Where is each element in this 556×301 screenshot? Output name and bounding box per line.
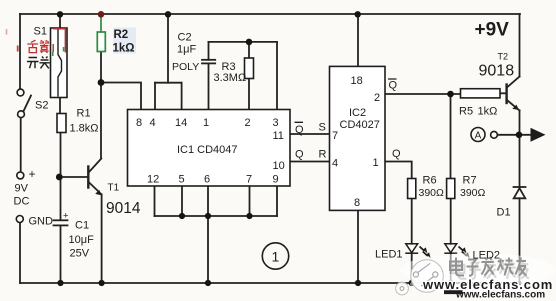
svg-text:1μF: 1μF: [177, 44, 196, 56]
svg-text:R7: R7: [463, 175, 477, 187]
svg-text:1: 1: [272, 249, 280, 265]
svg-text:LED2: LED2: [473, 250, 501, 262]
svg-text:10: 10: [273, 160, 285, 172]
svg-text:390Ω: 390Ω: [460, 187, 486, 199]
svg-text:5: 5: [179, 174, 185, 186]
svg-text:9014: 9014: [106, 200, 141, 217]
svg-text:7: 7: [246, 174, 252, 186]
svg-text:1kΩ: 1kΩ: [478, 106, 498, 118]
svg-text:2: 2: [374, 92, 380, 104]
svg-text:T2: T2: [498, 52, 509, 62]
svg-text:3: 3: [273, 117, 279, 129]
svg-text:1: 1: [373, 157, 379, 169]
svg-text:18: 18: [351, 75, 363, 87]
svg-text:9018: 9018: [479, 63, 515, 80]
svg-text:9V: 9V: [15, 183, 29, 195]
svg-text:R1: R1: [77, 108, 91, 120]
svg-text:10μF: 10μF: [69, 234, 95, 246]
svg-text:7: 7: [332, 130, 338, 142]
svg-text:IC2: IC2: [349, 107, 366, 119]
svg-text:S: S: [319, 122, 326, 134]
svg-text:DC: DC: [14, 196, 30, 208]
svg-text:LED1: LED1: [375, 249, 403, 261]
svg-text:+: +: [29, 167, 36, 181]
svg-text:S1: S1: [34, 26, 47, 38]
svg-text:C2: C2: [178, 32, 192, 44]
svg-text:D1: D1: [497, 207, 511, 219]
svg-text:14: 14: [175, 117, 187, 129]
svg-text:1kΩ: 1kΩ: [113, 43, 135, 55]
svg-text:Q: Q: [389, 80, 398, 92]
svg-text:12: 12: [147, 174, 159, 186]
svg-text:4: 4: [150, 117, 156, 129]
svg-text:R6: R6: [423, 175, 437, 187]
svg-text:T1: T1: [108, 183, 120, 194]
svg-text:IC1 CD4047: IC1 CD4047: [177, 144, 238, 156]
svg-text:R2: R2: [114, 29, 129, 41]
svg-text:1: 1: [203, 117, 209, 129]
svg-text:GND: GND: [29, 216, 54, 228]
svg-text:+: +: [63, 211, 69, 222]
svg-text:A: A: [475, 130, 482, 141]
svg-text:www.elecfans.com: www.elecfans.com: [455, 290, 545, 301]
svg-text:+9V: +9V: [475, 20, 510, 41]
svg-text:2: 2: [245, 117, 251, 129]
svg-text:8: 8: [136, 117, 142, 129]
svg-text:3.3MΩ: 3.3MΩ: [214, 72, 247, 84]
svg-text:25V: 25V: [70, 248, 90, 260]
svg-text:Q: Q: [295, 149, 304, 161]
svg-text:POLY: POLY: [172, 61, 199, 73]
svg-text:9: 9: [273, 174, 279, 186]
svg-text:8: 8: [354, 197, 360, 209]
svg-text:R5: R5: [459, 106, 473, 118]
svg-text:6: 6: [204, 174, 210, 186]
svg-text:390Ω: 390Ω: [419, 187, 445, 199]
svg-text:CD4027: CD4027: [340, 119, 380, 131]
svg-text:11: 11: [273, 130, 284, 142]
svg-text:C1: C1: [75, 220, 89, 232]
svg-text:4: 4: [332, 158, 338, 170]
svg-text:Q: Q: [295, 124, 304, 136]
svg-text:S2: S2: [35, 100, 48, 112]
svg-text:Q: Q: [392, 148, 401, 160]
svg-text:1.8kΩ: 1.8kΩ: [70, 123, 99, 135]
svg-text:R: R: [319, 149, 327, 161]
